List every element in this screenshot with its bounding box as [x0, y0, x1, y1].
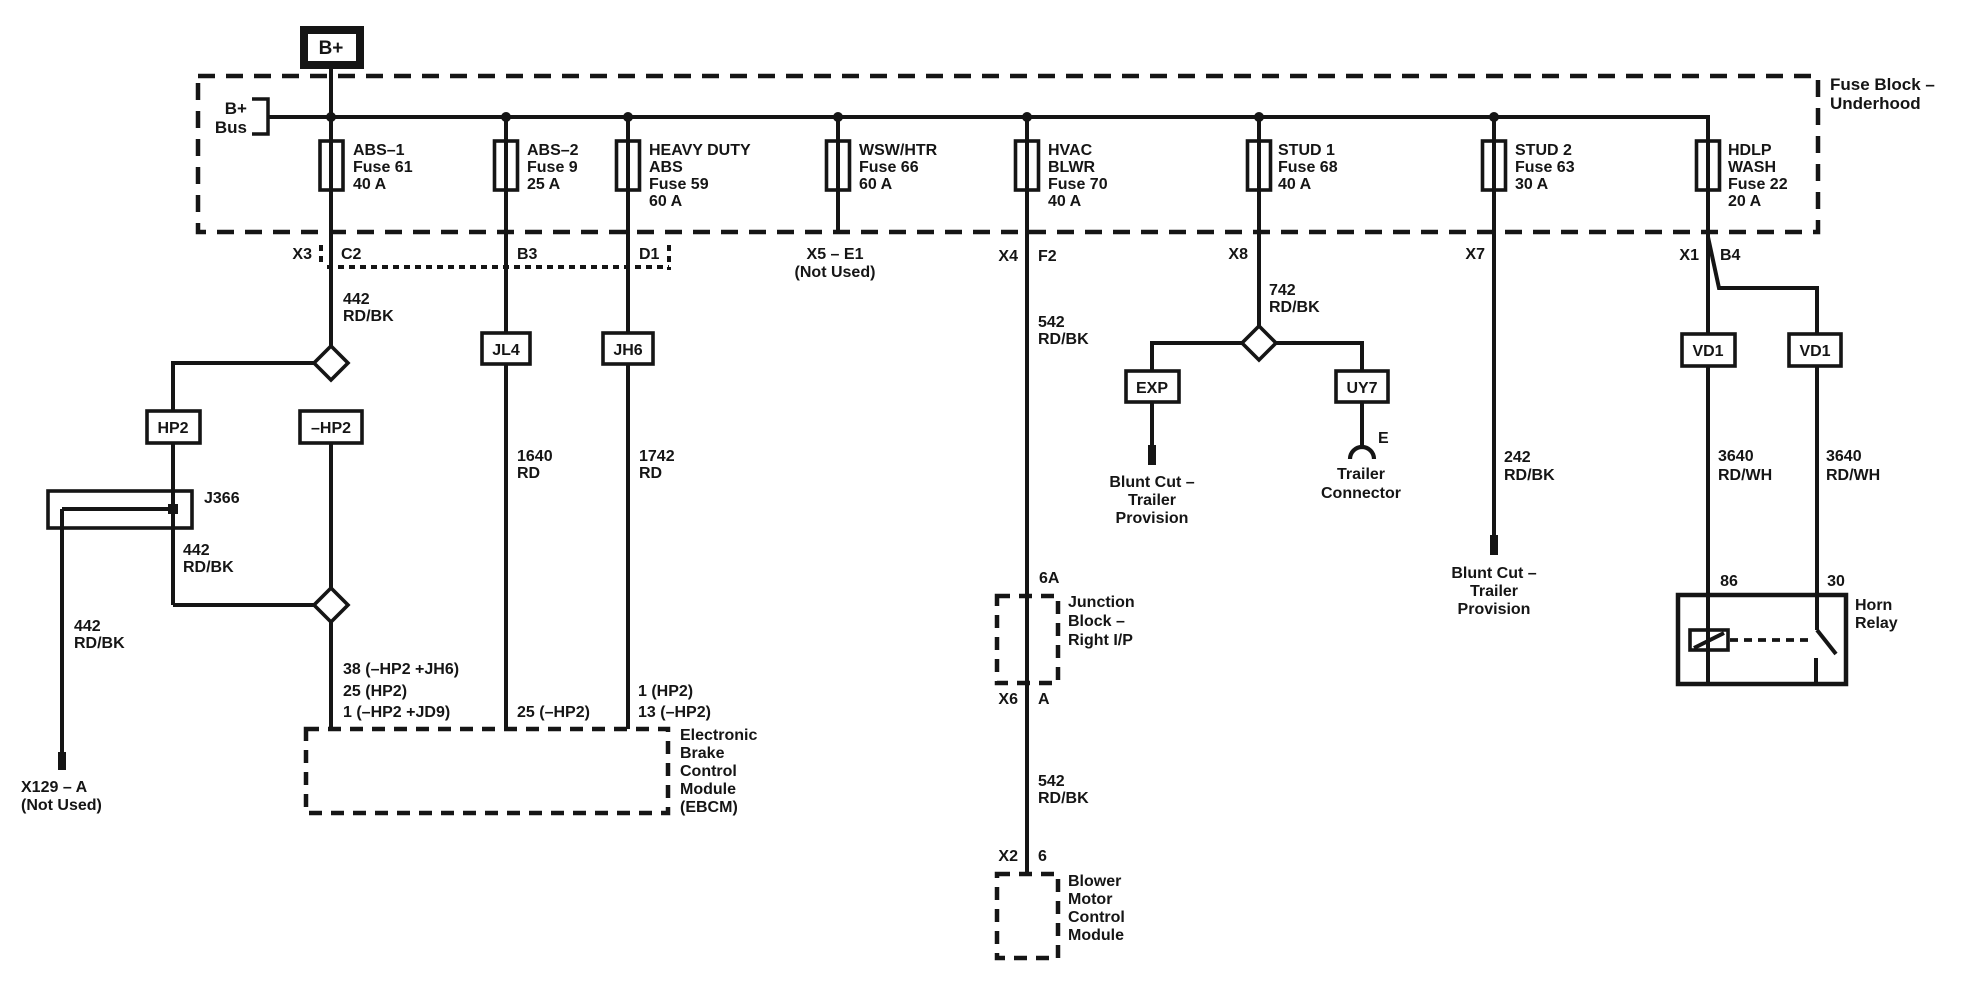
node bus/ABS-2: [501, 112, 511, 122]
wire HP2 down: [171, 443, 175, 605]
svg-text:F2: F2: [1038, 248, 1057, 265]
svg-text:Fuse 61: Fuse 61: [353, 159, 413, 176]
svg-text:ABS: ABS: [649, 159, 683, 176]
svg-text:Fuse 9: Fuse 9: [527, 159, 578, 176]
svg-text:X7: X7: [1465, 246, 1485, 263]
svg-text:RD/BK: RD/BK: [1504, 467, 1555, 484]
svg-text:25 (HP2): 25 (HP2): [343, 683, 407, 700]
svg-text:Trailer: Trailer: [1337, 466, 1385, 483]
svg-text:Electronic: Electronic: [680, 727, 757, 744]
svg-text:1640: 1640: [517, 448, 553, 465]
svg-text:Right I/P: Right I/P: [1068, 632, 1133, 649]
connector -HP2: [300, 411, 362, 443]
svg-text:542: 542: [1038, 773, 1065, 790]
connector EXP: [1126, 371, 1179, 402]
svg-text:X5 – E1: X5 – E1: [807, 246, 864, 263]
svg-text:X3: X3: [292, 246, 312, 263]
svg-text:RD/WH: RD/WH: [1718, 467, 1772, 484]
svg-text:RD: RD: [639, 465, 662, 482]
fuse WSW/HTR Fuse 66: [827, 141, 850, 190]
wire HDLP WASH drop: [1706, 115, 1710, 334]
svg-text:Module: Module: [680, 781, 736, 798]
wire S2 to EBCM: [329, 622, 333, 729]
svg-text:60 A: 60 A: [859, 176, 893, 193]
svg-text:ABS–2: ABS–2: [527, 142, 579, 159]
wire UY7 down: [1360, 402, 1364, 447]
connector JL4: [482, 333, 530, 364]
connector VD1 right: [1789, 334, 1841, 366]
svg-text:3640: 3640: [1718, 448, 1754, 465]
svg-text:RD/WH: RD/WH: [1826, 467, 1880, 484]
wire VD1 left down: [1706, 366, 1710, 684]
wire JL4 down to EBCM: [504, 364, 508, 729]
connector JH6: [603, 333, 653, 364]
svg-text:Relay: Relay: [1855, 615, 1898, 632]
svg-text:Control: Control: [1068, 909, 1125, 926]
wire S3 to EXP: [1152, 343, 1242, 371]
svg-text:442: 442: [74, 618, 101, 635]
svg-text:40 A: 40 A: [1048, 193, 1082, 210]
svg-text:E: E: [1378, 430, 1389, 447]
svg-text:Brake: Brake: [680, 745, 725, 762]
svg-text:STUD 2: STUD 2: [1515, 142, 1572, 159]
svg-text:–HP2: –HP2: [311, 420, 351, 437]
svg-text:D1: D1: [639, 246, 660, 263]
svg-text:3640: 3640: [1826, 448, 1862, 465]
connector HP2: [147, 411, 200, 443]
wire B4 jog to right branch: [1708, 237, 1817, 334]
fuse HEAVY DUTY ABS Fuse 59: [617, 141, 640, 190]
svg-text:STUD 1: STUD 1: [1278, 142, 1335, 159]
svg-text:C2: C2: [341, 246, 362, 263]
node bus/STUD1: [1254, 112, 1264, 122]
relay link dashed: [1730, 638, 1812, 642]
node bus/HD-ABS: [623, 112, 633, 122]
svg-text:X4: X4: [998, 248, 1018, 265]
wire J366 left leg down: [60, 509, 64, 752]
Blower Motor Control Module dashed box: [997, 874, 1058, 958]
svg-text:WSW/HTR: WSW/HTR: [859, 142, 938, 159]
blunt cut X129: [58, 752, 66, 770]
svg-text:Blunt Cut –: Blunt Cut –: [1451, 565, 1536, 582]
splice diamond S1: [314, 346, 348, 380]
svg-text:B+: B+: [225, 99, 247, 118]
fuse HVAC BLWR Fuse 70: [1016, 141, 1039, 190]
svg-text:Underhood: Underhood: [1830, 94, 1921, 113]
svg-text:Block –: Block –: [1068, 613, 1125, 630]
svg-text:J366: J366: [204, 490, 240, 507]
svg-text:WASH: WASH: [1728, 159, 1776, 176]
svg-text:X1: X1: [1679, 247, 1699, 264]
trailer connector arc: [1350, 447, 1374, 459]
connector VD1 left: [1682, 334, 1735, 366]
connector dotted line C2-D1: [327, 265, 669, 269]
B+ battery feed box: [304, 30, 360, 65]
horn relay box: [1678, 595, 1846, 684]
svg-text:Fuse 66: Fuse 66: [859, 159, 919, 176]
svg-text:1 (HP2): 1 (HP2): [638, 683, 693, 700]
svg-text:X129 – A: X129 – A: [21, 779, 88, 796]
wire S3 to UY7: [1276, 343, 1362, 371]
svg-text:RD: RD: [517, 465, 540, 482]
svg-text:Fuse 63: Fuse 63: [1515, 159, 1575, 176]
node bus/ABS-1: [326, 112, 336, 122]
svg-text:X8: X8: [1228, 246, 1248, 263]
wire HVAC BLWR drop: [1025, 117, 1029, 874]
node bus/WSW: [833, 112, 843, 122]
wire JH6 down to EBCM: [626, 364, 630, 729]
connector UY7: [1336, 371, 1388, 402]
svg-text:RD/BK: RD/BK: [74, 635, 125, 652]
fuse STUD 1 Fuse 68: [1248, 141, 1271, 190]
svg-text:6: 6: [1038, 848, 1047, 865]
svg-text:X2: X2: [998, 848, 1018, 865]
svg-text:30 A: 30 A: [1515, 176, 1549, 193]
svg-text:(Not Used): (Not Used): [795, 264, 876, 281]
svg-text:30: 30: [1827, 573, 1845, 590]
svg-text:A: A: [1038, 691, 1050, 708]
svg-text:RD/BK: RD/BK: [1038, 790, 1089, 807]
svg-text:242: 242: [1504, 449, 1531, 466]
fuse HDLP WASH Fuse 22: [1697, 141, 1720, 190]
svg-text:HDLP: HDLP: [1728, 142, 1772, 159]
svg-text:ABS–1: ABS–1: [353, 142, 405, 159]
svg-text:X6: X6: [998, 691, 1018, 708]
svg-text:RD/BK: RD/BK: [1038, 331, 1089, 348]
svg-text:Control: Control: [680, 763, 737, 780]
relay fixed contact stub: [1814, 658, 1818, 684]
wire WSW/HTR drop: [836, 117, 840, 233]
svg-text:EXP: EXP: [1136, 380, 1168, 397]
svg-text:Fuse 59: Fuse 59: [649, 176, 709, 193]
Junction Block - Right I/P dashed box: [997, 596, 1058, 683]
svg-text:HEAVY DUTY: HEAVY DUTY: [649, 142, 751, 159]
svg-text:Fuse 70: Fuse 70: [1048, 176, 1108, 193]
svg-text:Junction: Junction: [1068, 594, 1135, 611]
svg-text:742: 742: [1269, 282, 1296, 299]
wire -HP2 to S2: [329, 443, 333, 588]
svg-text:20 A: 20 A: [1728, 193, 1762, 210]
svg-text:Motor: Motor: [1068, 891, 1112, 908]
svg-text:Trailer: Trailer: [1470, 583, 1518, 600]
splice diamond S2: [314, 588, 348, 622]
fuse STUD 2 Fuse 63: [1483, 141, 1506, 190]
svg-text:Connector: Connector: [1321, 485, 1401, 502]
svg-text:6A: 6A: [1039, 570, 1060, 587]
svg-text:40 A: 40 A: [1278, 176, 1312, 193]
svg-text:JL4: JL4: [492, 342, 520, 359]
EBCM dashed box: [306, 729, 668, 813]
svg-text:BLWR: BLWR: [1048, 159, 1096, 176]
svg-text:25 (–HP2): 25 (–HP2): [517, 704, 590, 721]
blunt cut X7: [1490, 535, 1498, 555]
wire B+ drop: [329, 65, 333, 346]
svg-text:25 A: 25 A: [527, 176, 561, 193]
node bus/HVAC: [1022, 112, 1032, 122]
wire EXP down: [1150, 402, 1154, 445]
Fuse Block - Underhood dashed box: [198, 76, 1818, 232]
fuse ABS-1 Fuse 61: [320, 141, 343, 190]
svg-text:Fuse 22: Fuse 22: [1728, 176, 1788, 193]
wire STUD 2 drop: [1492, 117, 1496, 535]
svg-text:Trailer: Trailer: [1128, 492, 1176, 509]
svg-text:Bus: Bus: [215, 118, 247, 137]
svg-text:Provision: Provision: [1458, 601, 1531, 618]
svg-text:RD/BK: RD/BK: [1269, 299, 1320, 316]
wire HEAVY DUTY ABS drop: [626, 117, 630, 333]
wire B+ bus horizontal: [268, 115, 1708, 119]
svg-text:B4: B4: [1720, 247, 1741, 264]
svg-text:86: 86: [1720, 573, 1738, 590]
wire VD1 right down: [1815, 366, 1819, 630]
wire HP2 leg to S2: [173, 603, 314, 607]
svg-text:Module: Module: [1068, 927, 1124, 944]
svg-text:1 (–HP2 +JD9): 1 (–HP2 +JD9): [343, 704, 450, 721]
svg-text:Blower: Blower: [1068, 873, 1121, 890]
splice pack J366: [48, 491, 192, 528]
blunt cut below EXP: [1148, 445, 1156, 465]
relay switch arm: [1817, 630, 1836, 654]
fuse ABS-2 Fuse 9: [495, 141, 518, 190]
node bus/STUD2: [1489, 112, 1499, 122]
svg-text:Fuse 68: Fuse 68: [1278, 159, 1338, 176]
svg-text:Provision: Provision: [1116, 510, 1189, 527]
svg-text:HP2: HP2: [157, 420, 188, 437]
svg-text:B3: B3: [517, 246, 538, 263]
svg-text:542: 542: [1038, 314, 1065, 331]
svg-text:RD/BK: RD/BK: [183, 559, 234, 576]
svg-text:(EBCM): (EBCM): [680, 799, 738, 816]
svg-text:40 A: 40 A: [353, 176, 387, 193]
svg-text:Blunt Cut –: Blunt Cut –: [1109, 474, 1194, 491]
relay coil: [1690, 630, 1728, 650]
svg-text:VD1: VD1: [1799, 343, 1830, 360]
svg-text:B+: B+: [319, 38, 344, 59]
svg-text:38 (–HP2 +JH6): 38 (–HP2 +JH6): [343, 661, 459, 678]
svg-text:1742: 1742: [639, 448, 675, 465]
svg-text:(Not Used): (Not Used): [21, 797, 102, 814]
svg-text:60 A: 60 A: [649, 193, 683, 210]
wire ABS-2 drop: [504, 117, 508, 333]
svg-text:442: 442: [183, 542, 210, 559]
splice diamond S3: [1242, 326, 1276, 360]
wire S1 to HP2 branch: [173, 363, 314, 411]
svg-text:Horn: Horn: [1855, 597, 1892, 614]
svg-text:RD/BK: RD/BK: [343, 308, 394, 325]
svg-text:Fuse Block –: Fuse Block –: [1830, 75, 1935, 94]
wire STUD 1 drop: [1257, 117, 1261, 326]
svg-text:VD1: VD1: [1692, 343, 1723, 360]
svg-text:13 (–HP2): 13 (–HP2): [638, 704, 711, 721]
svg-text:JH6: JH6: [613, 342, 642, 359]
svg-text:442: 442: [343, 291, 370, 308]
svg-text:HVAC: HVAC: [1048, 142, 1093, 159]
svg-text:UY7: UY7: [1346, 380, 1377, 397]
